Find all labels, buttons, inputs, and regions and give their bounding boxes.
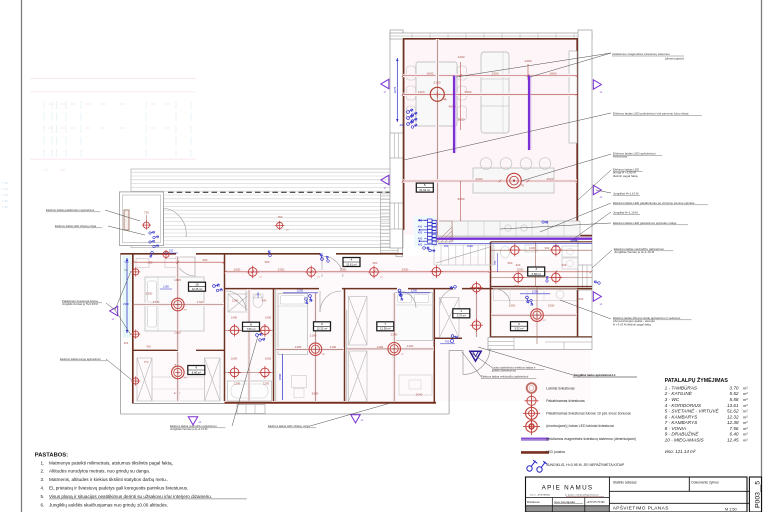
blue dim 2300 room10 left [126, 258, 128, 333]
desk room 6 [292, 376, 307, 388]
triangle marker left 2 [381, 175, 389, 184]
svg-text:51.62 m²: 51.62 m² [419, 188, 430, 192]
svg-text:APIE NAMUS: APIE NAMUS [542, 485, 594, 492]
vestibule cabinet [124, 210, 129, 230]
lower block bottom wall [132, 403, 225, 405]
wardrobe tambour [440, 298, 460, 338]
svg-text:PATALALPŲ ŽYMĖJIMAS: PATALALPŲ ŽYMĖJIMAS [665, 376, 729, 384]
svg-text:1400: 1400 [265, 316, 272, 320]
door arc room7 [399, 291, 416, 308]
svg-text:500: 500 [515, 284, 520, 288]
svg-text:13.61 m²: 13.61 m² [346, 262, 357, 266]
svg-text:1500: 1500 [509, 304, 516, 308]
kitchen left wall stub [437, 221, 439, 236]
wall rm6/rm7 [344, 289, 346, 401]
svg-text:1800: 1800 [550, 71, 557, 75]
top wall window mullions [412, 33, 574, 38]
svg-text:750: 750 [493, 260, 497, 265]
svg-text:EL prietaisų ir šviestuvų padė: EL prietaisų ir šviestuvų padėtys gali k… [49, 486, 188, 491]
room label 5 [416, 183, 433, 192]
porch steps below bottom wall [237, 405, 265, 414]
room label 1 [453, 309, 470, 318]
svg-text:1250: 1250 [297, 289, 304, 293]
svg-text:2100: 2100 [434, 81, 441, 85]
left exterior wall maroon [132, 254, 134, 404]
wc top-right room top wall [491, 241, 593, 243]
door arc katiline [495, 289, 510, 304]
lamp vestibule [142, 221, 151, 230]
lamps bathA [228, 324, 241, 337]
svg-text:Elektros laidas lempų apšvieti: Elektros laidas lempų apšvietimui [60, 357, 101, 361]
svg-text:2140: 2140 [391, 333, 398, 337]
svg-text:m²: m² [743, 420, 748, 425]
corner pantry hatch [437, 221, 453, 242]
svg-text:400: 400 [400, 123, 405, 127]
legend symbol LED juostos [521, 451, 549, 454]
svg-text:400: 400 [418, 237, 423, 241]
switch corridor top wall [317, 253, 325, 261]
bar stools [480, 158, 551, 170]
title block outer [526, 477, 748, 512]
wall rm10/rm9 [133, 349, 178, 351]
svg-text:Statinio adresas: Statinio adresas [613, 481, 637, 485]
wc/katiline separator [491, 286, 593, 288]
svg-text:2500: 2500 [458, 197, 465, 201]
bed room 10 [145, 277, 204, 331]
lamp corridor 1 [246, 266, 259, 279]
legend symbol jungiklis [527, 460, 548, 472]
svg-text:51.62: 51.62 [727, 409, 739, 414]
svg-text:1 - TAMBŪRAS: 1 - TAMBŪRAS [665, 384, 698, 390]
svg-text:Matmenys pateikti milimetrais,: Matmenys pateikti milimetrais, atstumus … [49, 460, 173, 465]
room label 7 [377, 322, 394, 331]
title block row lines [526, 497, 610, 499]
leader spinteles viduje [500, 223, 611, 229]
svg-text:1430: 1430 [407, 344, 414, 348]
blue mark right of plan [593, 279, 600, 286]
svg-text:600: 600 [203, 258, 208, 262]
title block P003 strip [749, 477, 761, 512]
svg-text:Elektros laidas LED pašvietimu: Elektros laidas LED pašvietimui virš pir… [613, 112, 689, 116]
svg-text:m²: m² [743, 414, 748, 419]
bottom-right corner step [488, 338, 592, 350]
entrance door arc [463, 348, 490, 375]
dining chairs [407, 66, 467, 120]
svg-text:5.52: 5.52 [730, 391, 739, 396]
svg-text:8 - VONIA: 8 - VONIA [665, 426, 686, 431]
leader veidrodzio [592, 250, 612, 268]
svg-text:2580: 2580 [340, 268, 347, 272]
svg-text:(dimeriuojami): (dimeriuojami) [665, 57, 684, 61]
nightstands room 10 [136, 259, 149, 268]
svg-text:1600: 1600 [231, 357, 238, 361]
bathtub bath A [228, 381, 272, 401]
wardrobe room 9 left [137, 358, 152, 401]
svg-text:2250: 2250 [278, 268, 285, 272]
wall band top of big room [390, 33, 592, 39]
switch cluster big room left wall [406, 107, 417, 129]
title dark row [526, 506, 609, 511]
magnetic track 1 [453, 76, 455, 154]
room10 dims [176, 257, 179, 350]
svg-text:m²: m² [743, 438, 748, 443]
svg-text:1250: 1250 [532, 290, 539, 294]
svg-text:P003__5: P003__5 [755, 481, 762, 508]
leader dziovos [560, 300, 611, 319]
svg-text:PASTABOS:: PASTABOS: [35, 453, 68, 459]
svg-text:12.45: 12.45 [727, 438, 739, 443]
svg-text:Elektros laidas LED pašvietimu: Elektros laidas LED pašvietimui spintele… [613, 221, 677, 225]
svg-text:700: 700 [445, 340, 450, 344]
ladder / steps at terrace right edge [381, 193, 399, 253]
blue dim 1800 room6 [281, 354, 283, 400]
title block verticals [608, 477, 610, 512]
dresser room 9 [152, 377, 205, 401]
room label 4 [343, 258, 360, 267]
svg-text:Jungiklių aukštis skaičiuojama: Jungiklių aukštis skaičiuojamas nuo grin… [49, 502, 168, 507]
svg-text:7.30: 7.30 [2, 199, 8, 203]
svg-text:5400: 5400 [465, 90, 472, 94]
svg-text:2 - KATILINĖ: 2 - KATILINĖ [664, 390, 693, 396]
svg-text:1600: 1600 [265, 357, 272, 361]
svg-text:1720: 1720 [197, 300, 204, 304]
svg-text:13.61: 13.61 [727, 403, 739, 408]
triangle marker right 2 [593, 185, 601, 194]
svg-text:5.52 m²: 5.52 m² [514, 327, 523, 331]
big room bottom wall [438, 235, 593, 237]
svg-text:2040: 2040 [312, 392, 319, 396]
svg-text:630: 630 [125, 261, 130, 264]
switch kitchen right [541, 219, 548, 226]
lamp room10 sconce bottom [131, 330, 140, 339]
svg-text:6.40: 6.40 [730, 432, 739, 437]
lamp id labels [184, 100, 546, 380]
svg-text:7.30: 7.30 [2, 205, 8, 209]
leader LED apsvietimui [521, 154, 611, 181]
svg-text:2300: 2300 [123, 302, 129, 306]
switch tambour top [449, 283, 457, 291]
wall band left of big room [390, 30, 403, 248]
lamp corridor 3 [368, 266, 381, 279]
svg-text:Ieva Juozapaitė: Ieva Juozapaitė [554, 500, 575, 504]
svg-text:1720: 1720 [153, 300, 160, 304]
dim vline dining [436, 39, 439, 235]
svg-text:2500: 2500 [517, 268, 524, 272]
switch vestibule [148, 229, 159, 249]
svg-text:1915: 1915 [174, 278, 181, 282]
kitchen counter [437, 221, 580, 236]
svg-text:1000: 1000 [234, 268, 241, 272]
svg-text:2500: 2500 [402, 268, 409, 272]
triangle marker bottom 2 [351, 415, 360, 423]
svg-text:Visus planą ir situacijos neat: Visus planą ir situacijos neatitikimus d… [49, 494, 212, 499]
svg-text:Elektros laidas LED užtaisų ro: Elektros laidas LED užtaisų rožga [268, 424, 310, 428]
border frame right line [761, 0, 763, 512]
staircase [434, 245, 494, 265]
svg-text:7.30: 7.30 [2, 193, 8, 197]
border frame left line [21, 0, 23, 512]
tambour bottom walls / entrance recess [434, 337, 462, 339]
room7 dims [393, 293, 396, 401]
cyan band outside room10 wall [123, 256, 132, 338]
tint lower block [133, 256, 591, 401]
lamp corridor 4 [430, 265, 443, 278]
svg-text:600: 600 [508, 261, 513, 265]
dim line big room top [403, 74, 577, 77]
LED line kitchen [437, 237, 592, 239]
svg-text:1495: 1495 [295, 345, 302, 349]
room label 3 [528, 267, 545, 276]
svg-text:APŠVIETIMO PLANAS: APŠVIETIMO PLANAS [613, 504, 669, 510]
svg-text:6: 6 [321, 322, 323, 326]
svg-text:1915: 1915 [174, 331, 181, 335]
svg-text:1150: 1150 [163, 285, 169, 289]
svg-text:1100: 1100 [330, 345, 337, 349]
leader LED pakabinimui [404, 113, 611, 160]
room label 8 [243, 322, 260, 331]
svg-text:4 - KORIDORIUS: 4 - KORIDORIUS [665, 403, 702, 408]
svg-text:1200: 1200 [263, 382, 270, 386]
dim vline x528 [527, 64, 529, 80]
svg-text:1200: 1200 [234, 382, 241, 386]
lamp room9 pendant [172, 366, 185, 379]
switch room10 top [148, 251, 155, 258]
svg-text:2520: 2520 [547, 177, 554, 181]
legend symbol pakabinamas [525, 394, 539, 408]
svg-text:tel. nr. +3706786562: tel. nr. +3706786562 [530, 494, 551, 497]
svg-text:3.70 m²: 3.70 m² [457, 314, 466, 318]
kitchen island [473, 168, 554, 193]
svg-text:Altitudės nurodytos metrais, n: Altitudės nurodytos metrais, nuo grindų … [49, 469, 150, 474]
tint cyan staircase dim [414, 216, 437, 247]
svg-text:400: 400 [418, 243, 423, 247]
room label 6 [314, 322, 331, 331]
svg-text:Elektros laidas LED užtaisų ro: Elektros laidas LED užtaisų rožga [55, 224, 97, 228]
blue 400 labels near staircase [418, 219, 437, 247]
svg-text:Lubinis šviestuvas: Lubinis šviestuvas [546, 386, 575, 390]
svg-text:5.58: 5.58 [730, 397, 739, 402]
katiline dims [491, 314, 577, 317]
svg-text:H +3.03 M tikslinti pagal fakt: H +3.03 M tikslinti pagal faktą [613, 322, 651, 326]
door arc tambour-hall [440, 289, 456, 305]
katiline right wall [577, 290, 579, 337]
svg-text:+370 675 75 084: +370 675 75 084 [587, 501, 606, 504]
svg-text:600: 600 [579, 297, 584, 301]
svg-text:m²: m² [743, 397, 748, 402]
svg-text:Pakabinamas šviestuvas: Pakabinamas šviestuvas [546, 399, 585, 403]
wc room dims [535, 242, 537, 287]
big room inner wall lines (maroon) [403, 38, 578, 40]
switch cluster staircase [419, 219, 437, 254]
svg-text:Elektros laidas LED pakabinima: Elektros laidas LED pakabinimas po virtu… [613, 201, 695, 205]
dresser room 7 [399, 375, 432, 395]
switch wc room [544, 275, 551, 282]
svg-text:9 - DRABUŽINĖ: 9 - DRABUŽINĖ [665, 430, 700, 437]
svg-text:7.30: 7.30 [2, 187, 8, 191]
svg-text:7: 7 [384, 322, 386, 326]
lower block top wall [121, 253, 177, 255]
svg-text:tikslinti pagal faktą: tikslinti pagal faktą [613, 174, 638, 178]
bathA dims [247, 289, 250, 401]
svg-text:770: 770 [144, 360, 149, 364]
shower bath A [228, 294, 250, 312]
svg-text:Elektros laidas vešdrodžio apš: Elektros laidas vešdrodžio apšvietimui [481, 375, 529, 379]
lamp room10 wall top [161, 250, 170, 259]
svg-text:9: 9 [195, 366, 197, 370]
wall tambour/katiline [490, 242, 492, 337]
svg-text:1: 1 [460, 309, 462, 313]
svg-text:(montuojami) į lubas LED lubin: (montuojami) į lubas LED lubiniai šviest… [546, 424, 614, 428]
window W1 left wall [390, 133, 403, 158]
dining table [416, 62, 457, 126]
lamps wc room [509, 244, 522, 257]
tv bench [569, 51, 577, 143]
katiline counter [494, 289, 577, 301]
bed room 6 [278, 294, 308, 355]
blue dim 1250 katiline [520, 293, 550, 295]
svg-text:Dizainerė: Dizainerė [527, 500, 540, 504]
lamp dining pendant [430, 87, 444, 101]
entrance steps [448, 350, 450, 414]
svg-text:5: 5 [424, 183, 426, 187]
svg-text:900: 900 [516, 263, 521, 267]
svg-text:1800: 1800 [278, 373, 282, 380]
lamp room6 pendant [309, 343, 322, 356]
svg-text:5.58 m²: 5.58 m² [532, 272, 541, 276]
svg-text:1100: 1100 [377, 345, 384, 349]
svg-text:2.: 2. [41, 469, 45, 474]
wall band right of big room [578, 30, 592, 337]
triangle marker bottom 1 [188, 417, 197, 425]
triangle marker room10 left [110, 306, 118, 315]
katiline bottom wall [491, 336, 593, 338]
svg-text:540: 540 [262, 299, 267, 303]
svg-text:m²: m² [743, 385, 748, 390]
window W3 right wall [578, 265, 592, 290]
legend symbol montuojami [523, 418, 540, 435]
svg-text:1400: 1400 [529, 246, 536, 250]
terrace roof dashed line [168, 191, 390, 193]
dim line big room second [403, 93, 577, 96]
svg-text:150: 150 [169, 249, 174, 253]
svg-text:2: 2 [518, 322, 520, 326]
lamp terrace [275, 221, 284, 230]
svg-text:m²: m² [743, 409, 748, 414]
svg-text:12.38: 12.38 [727, 420, 739, 425]
svg-text:viso: 121.14 m²: viso: 121.14 m² [665, 449, 696, 454]
wall rooms10/9 right [224, 254, 226, 401]
legend symbol lubinis [527, 383, 537, 393]
svg-text:6.40 m²: 6.40 m² [192, 370, 201, 374]
svg-text:7 - KAMBARYS: 7 - KAMBARYS [665, 420, 699, 425]
door arc corridor-terrace (gap) [322, 256, 343, 277]
ghost watermark table top-left [30, 79, 196, 173]
washer dryer wc room [562, 246, 578, 257]
leader virtuvine spintele [540, 203, 611, 232]
switch room6 door [306, 294, 314, 302]
svg-text:Jungiklai H+1.10 M: Jungiklai H+1.10 M [613, 211, 638, 215]
svg-text:400: 400 [418, 231, 423, 235]
svg-text:2500: 2500 [146, 292, 153, 296]
svg-text:1800: 1800 [427, 71, 434, 75]
switch katiline [523, 296, 531, 304]
entrance triangle filled [470, 351, 481, 361]
svg-text:150: 150 [60, 168, 66, 172]
svg-text:(Iešdiamos magnetinės šviestuv: (Iešdiamos magnetinės šviestuvų sistemos… [546, 437, 636, 441]
svg-text:530: 530 [148, 261, 153, 265]
lamp room7 pendant [388, 343, 401, 356]
legend symbol magnetines line [521, 438, 549, 441]
svg-text:1320: 1320 [418, 90, 425, 94]
svg-text:m²: m² [743, 432, 748, 437]
svg-text:m²: m² [743, 403, 748, 408]
svg-text:600: 600 [373, 261, 378, 265]
switch tambour bottom [451, 333, 459, 341]
svg-text:400: 400 [418, 225, 423, 229]
svg-text:900: 900 [545, 246, 550, 250]
svg-text:Matmenis, altitudes ir kiekius: Matmenis, altitudes ir kiekius tikslinti… [49, 477, 168, 482]
svg-text:1400: 1400 [458, 55, 465, 59]
window W2 left wall [390, 203, 403, 229]
wardrobe room 9 right [205, 358, 221, 401]
leader LED lempa [578, 170, 611, 200]
svg-text:JUNGIKLIS, H=0.95 M. JEI NEPAŽ: JUNGIKLIS, H=0.95 M. JEI NEPAŽYMĖTA KITA… [546, 462, 625, 467]
svg-text:10: 10 [195, 282, 199, 286]
svg-text:5.: 5. [41, 494, 45, 499]
vestibule door arc [164, 208, 187, 237]
svg-text:2300: 2300 [492, 71, 499, 75]
lamp room9 sconce [131, 376, 140, 385]
terrace deck with plank hatch [131, 169, 392, 248]
blue dim 3075 in left wall [396, 58, 398, 122]
lower block outer gray outline [120, 254, 122, 415]
sofa [481, 52, 509, 133]
svg-text:12.45 m²: 12.45 m² [192, 287, 203, 291]
svg-text:6 - KAMBARYS: 6 - KAMBARYS [665, 414, 699, 419]
lamp room10 pendant [172, 298, 185, 311]
svg-text:3.: 3. [41, 477, 45, 482]
lamp corridor 2 [305, 266, 318, 279]
blue kitchen bottom dims [438, 242, 592, 244]
blue dim 1250 room7 [398, 292, 430, 294]
svg-text:Elektros laidas pakabinamo apš: Elektros laidas pakabinamo apšvietimui [46, 208, 95, 212]
svg-text:4: 4 [351, 258, 353, 262]
svg-text:Dokumento žymuo: Dokumento žymuo [691, 481, 719, 485]
notes rows [41, 460, 247, 507]
magnetic track 2 [528, 76, 530, 151]
legend symbol pakabinamas lubose [523, 405, 540, 422]
svg-text:Pakabinamas šviestuvas lubose: Pakabinamas šviestuvas lubose 10 pat. lo… [546, 411, 631, 415]
svg-text:3 - WC: 3 - WC [665, 397, 680, 402]
svg-text:300: 300 [444, 244, 449, 248]
wall band corner below stairs opening [402, 230, 404, 257]
wardrobes room 7 left wall [349, 297, 368, 346]
dim line island [403, 179, 577, 182]
corridor dim line [225, 270, 490, 274]
svg-text:700: 700 [146, 345, 151, 349]
svg-text:9190: 9190 [467, 244, 473, 248]
svg-text:203: 203 [124, 341, 129, 345]
svg-text:1250: 1250 [411, 289, 418, 293]
switch room10 door [212, 281, 220, 289]
lamp katiline [531, 309, 544, 322]
switch bathA door [255, 330, 263, 338]
title row dizainere [551, 498, 553, 506]
svg-text:600: 600 [562, 263, 567, 267]
room6 dims [314, 293, 317, 401]
corridor bottom wall [224, 288, 319, 290]
door arc bathA [226, 291, 246, 311]
